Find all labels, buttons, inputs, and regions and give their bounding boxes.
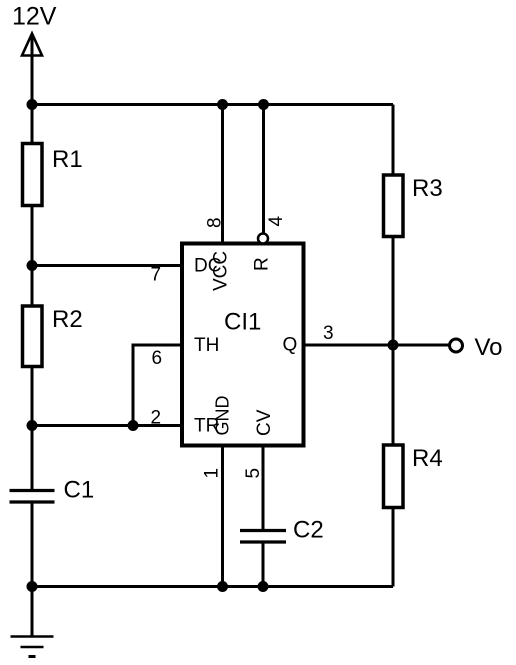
node bottom-left junction bbox=[27, 581, 38, 592]
svg-text:6: 6 bbox=[152, 348, 163, 369]
wire pin 2 (TR) bbox=[32, 424, 182, 427]
wire R4 to bottom rail bbox=[392, 508, 395, 587]
svg-text:1: 1 bbox=[202, 468, 223, 479]
node pin5 bottom junction bbox=[258, 581, 269, 592]
svg-text:VCC: VCC bbox=[211, 251, 232, 291]
svg-text:4: 4 bbox=[266, 216, 287, 227]
svg-text:5: 5 bbox=[243, 468, 264, 479]
wire top rail bbox=[32, 103, 393, 106]
svg-text:CV: CV bbox=[254, 409, 275, 436]
wire R2 to C1 bbox=[31, 367, 34, 491]
svg-text:Q: Q bbox=[283, 335, 298, 356]
node pin4 top junction bbox=[258, 99, 269, 110]
ground bbox=[11, 587, 54, 657]
op-amp U1: IC body CI1 bbox=[182, 244, 304, 446]
wire C1 to bottom rail bbox=[31, 503, 34, 587]
wire R1 to pin7 node bbox=[31, 206, 34, 266]
wire pin 6 (TH) L-shape bbox=[133, 345, 182, 426]
svg-text:C1: C1 bbox=[64, 477, 95, 504]
svg-text:8: 8 bbox=[205, 217, 226, 228]
resistor R2 bbox=[23, 306, 43, 367]
resistor R1 bbox=[23, 144, 43, 206]
wire pin 3 (Q) to Vo bbox=[304, 344, 450, 347]
node top-left junction bbox=[27, 99, 38, 110]
node pin1 bottom junction bbox=[217, 581, 228, 592]
node pin6-pin2 junction bbox=[128, 420, 139, 431]
capacitor C1 bbox=[10, 491, 55, 503]
node Q output junction bbox=[388, 340, 399, 351]
wire pin 5 (CV) to C2 bbox=[262, 446, 265, 531]
svg-text:7: 7 bbox=[151, 265, 162, 286]
wire pin 4 (R) bbox=[262, 105, 265, 234]
resistor R3 bbox=[384, 175, 404, 237]
svg-text:3: 3 bbox=[323, 323, 334, 344]
wire C2 to bottom rail bbox=[262, 543, 265, 587]
svg-text:GND: GND bbox=[213, 396, 233, 436]
svg-text:C2: C2 bbox=[293, 517, 324, 544]
capacitor C2 bbox=[240, 531, 286, 543]
wire pin 8 (VCC) bbox=[221, 105, 224, 244]
resistor R4 bbox=[384, 445, 404, 508]
wire pin 7 (DC) bbox=[32, 264, 182, 267]
svg-text:12V: 12V bbox=[12, 3, 57, 31]
node pin2 left junction bbox=[27, 420, 38, 431]
svg-text:Vo: Vo bbox=[475, 334, 503, 361]
svg-text:R2: R2 bbox=[52, 306, 83, 333]
svg-text:2: 2 bbox=[151, 408, 162, 429]
svg-text:TH: TH bbox=[194, 335, 219, 356]
svg-text:CI1: CI1 bbox=[224, 309, 261, 336]
power symbol 12V arrow bbox=[22, 34, 42, 105]
svg-text:R4: R4 bbox=[412, 445, 443, 472]
svg-text:R: R bbox=[252, 257, 273, 271]
terminal Vo bbox=[450, 339, 463, 352]
node pin7 junction bbox=[27, 260, 38, 271]
wire right rail top to R3 bbox=[392, 105, 395, 176]
wire pin7 node to R2 bbox=[31, 266, 34, 307]
wire left rail: top node to R1 bbox=[31, 105, 34, 145]
node pin8 top junction bbox=[217, 99, 228, 110]
svg-text:R3: R3 bbox=[412, 175, 443, 202]
inversion bubble pin 4 bbox=[258, 234, 268, 244]
wire R3 to R4 bbox=[392, 237, 395, 446]
wire bottom rail bbox=[32, 585, 393, 588]
wire pin 1 (GND) bbox=[221, 446, 224, 587]
svg-text:R1: R1 bbox=[52, 146, 83, 173]
